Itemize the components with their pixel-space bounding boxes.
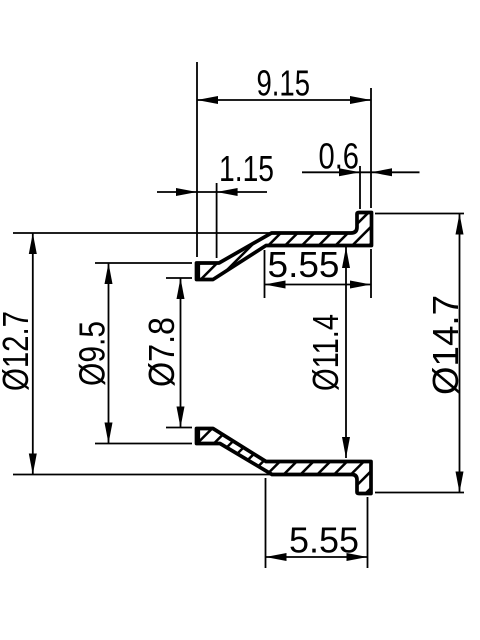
neck end face edge upper	[198, 263, 200, 280]
dim dia14.7 extension bottom	[375, 492, 464, 494]
hatching lower wall	[114, 400, 459, 510]
dim 5.55 top line	[265, 284, 372, 286]
svg-text:5.55: 5.55	[289, 520, 359, 561]
arrow dia7.8 top	[177, 278, 185, 299]
dim dia12.7 line	[32, 233, 34, 475]
arrow dia14.7 bottom	[456, 472, 464, 493]
dim 9.15 line	[197, 99, 371, 101]
dim dia14.7 extension top	[375, 213, 464, 215]
svg-text:1.15: 1.15	[219, 148, 274, 189]
dim 5.55 top extension line left	[264, 250, 266, 298]
neck end face edge lower	[198, 429, 200, 444]
dim 5.55 bottom extension line left	[265, 478, 267, 568]
dim 0.6 extension line left	[359, 166, 361, 209]
arrow dia9.5 top	[105, 263, 113, 284]
dim dia7.8 extension top	[166, 277, 192, 279]
arrow 5.55 bottom left	[266, 553, 287, 561]
dim dia14.7 line	[459, 214, 461, 493]
svg-text:Ø7.8: Ø7.8	[141, 317, 182, 387]
dim 5.55 bottom extension line right	[367, 497, 369, 568]
svg-text:Ø9.5: Ø9.5	[72, 321, 113, 386]
part upper wall section	[197, 213, 372, 280]
arrow 1.15 right (outside)	[217, 188, 238, 196]
arrow dia12.7 bottom	[29, 454, 37, 475]
dim 0.6 line	[302, 171, 420, 173]
arrow 0.6 right (outside)	[371, 168, 392, 176]
dim 9.15 / 0.6 extension line right	[370, 88, 372, 208]
dim 1.15 line	[157, 191, 267, 193]
dim 5.55 top extension line right	[370, 249, 372, 298]
arrow dia11.4 bottom	[342, 437, 350, 458]
arrow 1.15 left (outside)	[176, 188, 197, 196]
svg-text:Ø11.4: Ø11.4	[305, 314, 346, 391]
svg-text:Ø14.7: Ø14.7	[425, 295, 466, 395]
dim dia9.5 extension bottom	[95, 443, 192, 445]
hatching upper wall	[163, 190, 424, 300]
arrow 5.55 bottom right	[347, 553, 368, 561]
dim dia9.5 extension top	[95, 262, 192, 264]
arrow dia9.5 bottom	[105, 423, 113, 444]
dim dia11.4 line	[345, 247, 347, 458]
dim dia12.7 extension bottom	[13, 474, 270, 476]
part lower wall section	[197, 429, 372, 494]
svg-text:0.6: 0.6	[319, 136, 360, 177]
arrow dia7.8 bottom	[177, 407, 185, 428]
arrow 5.55 top right	[350, 281, 371, 289]
arrow 5.55 top left	[265, 281, 286, 289]
arrow 0.6 left (outside)	[339, 168, 360, 176]
dim dia12.7 extension top	[13, 232, 270, 234]
svg-text:9.15: 9.15	[257, 63, 311, 104]
dim 9.15 extension line left	[196, 62, 198, 257]
dim 5.55 bottom line	[266, 556, 368, 558]
dim 1.15 extension line right	[216, 183, 218, 258]
dim dia7.8 extension bottom	[166, 427, 192, 429]
dim dia9.5 line	[108, 263, 110, 444]
arrow dia14.7 top	[456, 214, 464, 235]
svg-text:5.55: 5.55	[268, 244, 340, 285]
arrow 9.15 left	[197, 96, 218, 104]
arrow dia11.4 top	[342, 247, 350, 268]
dim dia7.8 line	[180, 278, 182, 428]
arrow dia12.7 top	[29, 233, 37, 254]
arrow 9.15 right	[350, 96, 371, 104]
svg-text:Ø12.7: Ø12.7	[0, 311, 36, 391]
